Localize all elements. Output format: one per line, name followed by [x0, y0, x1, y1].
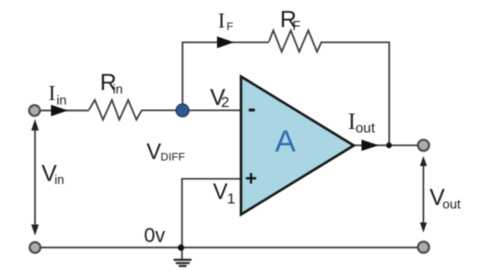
svg-text:F: F	[227, 21, 234, 33]
svg-text:2: 2	[221, 94, 229, 111]
svg-text:I: I	[218, 9, 225, 33]
svg-text:0v: 0v	[144, 225, 165, 247]
svg-text:A: A	[275, 124, 296, 159]
svg-text:V: V	[213, 179, 228, 204]
svg-text:V: V	[147, 139, 162, 164]
svg-text:1: 1	[227, 191, 235, 208]
svg-text:out: out	[356, 120, 376, 136]
svg-text:in: in	[55, 173, 65, 187]
svg-text:in: in	[113, 82, 123, 97]
svg-text:DIFF: DIFF	[161, 152, 186, 164]
svg-text:in: in	[57, 93, 67, 108]
svg-text:F: F	[293, 18, 301, 33]
svg-text:I: I	[49, 81, 56, 105]
svg-text:out: out	[443, 197, 461, 212]
